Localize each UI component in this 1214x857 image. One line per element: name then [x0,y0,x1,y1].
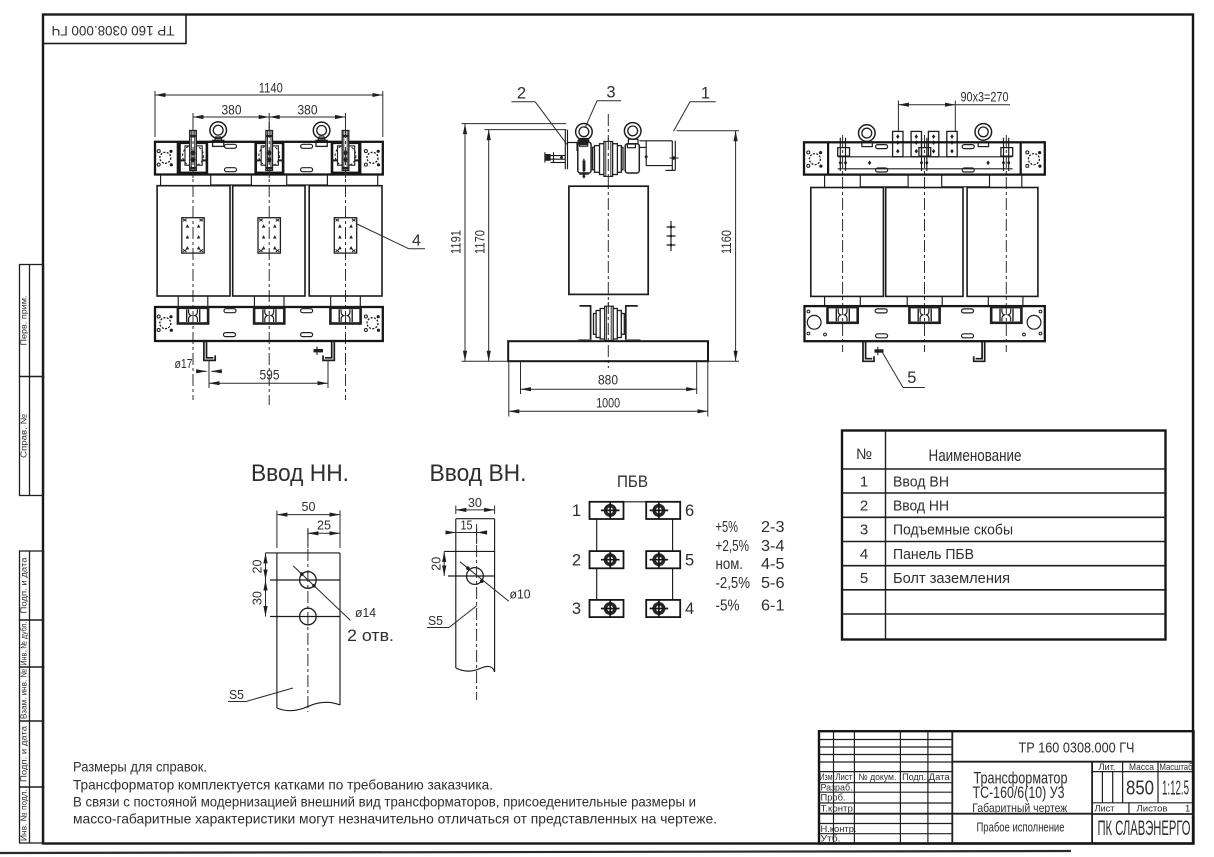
top bushing stepped spool [593,142,623,177]
svg-text:Подп. и дата: Подп. и дата [19,557,29,613]
lifting eyes [576,124,593,141]
bushing clamp phase A [180,131,207,173]
svg-text:1170: 1170 [472,230,487,254]
svg-text:Лист: Лист [835,772,852,782]
dim 880 / 1000 [509,361,708,416]
svg-text:2-3: 2-3 [761,519,785,536]
svg-text:Проб.: Проб. [821,793,846,804]
svg-text:1191: 1191 [449,230,464,254]
left margin cells [20,265,44,844]
phase clamps [840,138,1008,171]
svg-text:ПК СЛАВЭНЕРГО: ПК СЛАВЭНЕРГО [1098,817,1191,840]
roller B [909,307,939,323]
svg-text:6: 6 [685,502,694,520]
svg-text:3: 3 [606,84,615,102]
svg-text:ТР 160 0308.000 ГЧ: ТР 160 0308.000 ГЧ [1019,739,1135,756]
centerlines phases [192,122,194,400]
svg-text:-2,5%: -2,5% [716,575,751,592]
svg-text:380: 380 [222,103,242,118]
terminal 5 [646,551,680,568]
svg-text:Лит.: Лит. [1099,762,1116,773]
svg-text:1:12.5: 1:12.5 [1162,777,1189,799]
top-left stamp [43,15,186,44]
bottom beam [155,307,383,341]
svg-text:Утб.: Утб. [821,834,841,845]
svg-text:№ докум.: № докум. [858,772,896,782]
terminal 3 [590,600,624,617]
dims [266,511,341,617]
bushing clamp phase C [332,131,359,173]
svg-text:1: 1 [1185,803,1190,814]
callout 4 leader [356,224,409,249]
roller phase A [178,308,208,324]
svg-text:2: 2 [517,85,526,103]
svg-text:массо-габаритные характеристик: массо-габаритные характеристики могут не… [73,812,717,827]
dim 90x3=270 [898,101,1010,132]
feet [204,341,334,360]
roller A [828,307,858,323]
svg-text:1: 1 [572,502,581,520]
right section [1101,772,1103,803]
svg-text:Панель ПБВ: Панель ПБВ [893,546,974,563]
terminal 6 [646,502,680,519]
terminal 4 [646,600,680,617]
svg-text:5: 5 [685,551,694,569]
svg-text:Масштаб: Масштаб [1160,762,1193,773]
svg-text:Дата: Дата [929,772,950,782]
svg-text:3: 3 [572,600,581,618]
svg-text:Лист: Лист [1095,803,1116,814]
svg-text:3: 3 [860,521,868,538]
BH bushing cylinder right [625,144,639,173]
terminal strips [893,131,958,156]
feet [863,341,985,361]
svg-text:Инв. № подл.: Инв. № подл. [19,789,29,841]
right bracket (BH) [639,141,675,171]
steps under windings [825,296,1023,306]
svg-text:ПБВ: ПБВ [617,472,648,491]
svg-text:4: 4 [860,546,868,563]
svg-text:5-6: 5-6 [761,575,785,592]
PBV panel phase A [182,218,204,253]
svg-text:5: 5 [907,369,916,387]
svg-text:380: 380 [298,103,318,118]
beam ovals [876,145,888,149]
svg-text:Подъемные скобы: Подъемные скобы [893,521,1013,538]
callouts 2 3 1 [511,101,715,145]
svg-text:4: 4 [685,600,694,618]
svg-text:+2,5%: +2,5% [716,538,750,555]
svg-text:20: 20 [429,557,443,571]
left bracket assembly (HH) [545,130,589,177]
svg-text:Подп.: Подп. [902,772,926,782]
svg-text:1: 1 [701,85,710,103]
svg-text:Масса: Масса [1129,762,1155,773]
notes text [73,760,717,827]
svg-text:ТС-160/6(10) У3: ТС-160/6(10) У3 [973,783,1065,802]
svg-text:20: 20 [251,559,265,573]
end plate right [364,150,380,167]
svg-text:ном.: ном. [716,556,744,573]
ground bolt (item 5) [314,349,324,352]
strip [277,553,340,711]
svg-text:Размеры для справок.: Размеры для справок. [73,760,207,775]
lifting eyes [210,122,227,139]
roller phase C [330,308,360,324]
svg-text:+5%: +5% [716,519,739,536]
svg-text:4: 4 [412,233,421,250]
title block [819,731,1194,844]
svg-text:Листов: Листов [1137,803,1168,814]
svg-text:Габаритный чертеж: Габаритный чертеж [972,801,1067,815]
svg-text:1140: 1140 [259,81,283,96]
595 dim [209,360,328,388]
svg-text:-5%: -5% [716,598,740,615]
svg-text:1: 1 [860,473,868,490]
svg-text:15: 15 [461,519,473,533]
svg-text:ø10: ø10 [510,588,531,602]
top beam [155,142,383,175]
dims 1191 1170 [462,124,740,362]
PBV panel phase B [258,218,280,253]
windings [811,188,884,297]
svg-text:Ввод НН.: Ввод НН. [251,460,349,487]
svg-text:ø14: ø14 [355,606,376,620]
svg-text:5: 5 [860,570,868,587]
parts table [842,431,1166,640]
svg-text:Перв. прим.: Перв. прим. [19,296,29,346]
svg-text:2: 2 [572,551,581,569]
bushing clamp phase B [256,131,283,173]
o17 dim [196,360,222,388]
PBV panel phase C (item 4) [334,218,356,253]
svg-text:30: 30 [468,496,482,510]
svg-text:Ввод ВН.: Ввод ВН. [430,460,527,487]
svg-text:50: 50 [302,500,316,514]
svg-text:30: 30 [251,591,265,605]
inner band [838,157,1013,169]
svg-text:№: № [856,446,872,463]
windings [157,186,230,296]
svg-text:Справ. №: Справ. № [19,414,29,458]
bottom spool + brackets [594,306,625,340]
terminal 2 [590,551,624,568]
callout 5 [882,352,925,387]
svg-text:Изм: Изм [820,772,833,782]
svg-text:1000: 1000 [596,395,620,410]
top beam [804,142,1045,174]
steps under beam [161,175,378,186]
base [508,341,708,361]
leader o14 [293,566,350,621]
svg-text:1160: 1160 [719,230,734,254]
svg-text:Взам. инв. №: Взам. инв. № [19,669,29,719]
bolt detail right [667,221,676,251]
end plate left [157,150,173,167]
svg-text:Болт заземления: Болт заземления [893,570,1010,587]
svg-text:ТР 160 0308.000 ГЧ: ТР 160 0308.000 ГЧ [52,23,175,39]
roller C [991,307,1021,323]
left section verticals [833,731,835,843]
svg-text:6-1: 6-1 [761,598,785,615]
slot ovals [225,144,237,148]
svg-text:Ввод НН: Ввод НН [893,497,949,514]
winding [569,186,648,294]
bottom beam [805,306,1045,341]
HH bushing cylinder left [578,142,591,173]
svg-text:880: 880 [598,373,618,388]
svg-text:2 отв.: 2 отв. [347,627,394,645]
dim 1160 [677,131,740,361]
eyes [859,125,876,142]
svg-text:850: 850 [1126,777,1154,799]
terminal 1 [590,502,624,519]
svg-text:Прабое исполнение: Прабое исполнение [977,820,1065,834]
svg-text:Наименование: Наименование [929,447,1022,465]
steps under beam [825,175,1022,188]
svg-text:Инв. № дубл.: Инв. № дубл. [19,622,29,666]
small top rows left section [819,739,952,741]
svg-text:В связи с постояной модернизац: В связи с постояной модернизацией внешни… [73,795,696,810]
svg-text:S5: S5 [229,688,244,702]
svg-text:90х3=270: 90х3=270 [961,90,1009,105]
svg-text:S5: S5 [428,614,443,628]
svg-text:Подп. и дата: Подп. и дата [19,726,29,782]
svg-text:Ввод ВН: Ввод ВН [893,473,949,490]
svg-text:595: 595 [260,368,280,383]
svg-text:4-5: 4-5 [761,556,785,573]
svg-text:Т.контр.: Т.контр. [821,804,856,815]
svg-text:2: 2 [860,497,868,514]
dim 1140 [155,91,383,137]
ground bolt item 5 [875,349,884,352]
svg-text:ø17: ø17 [175,357,193,371]
roller phase B [254,308,284,324]
svg-text:3-4: 3-4 [761,538,785,555]
svg-text:Трансформатор комплектуется ка: Трансформатор комплектуется катками по т… [73,778,493,793]
svg-text:25: 25 [317,519,331,533]
